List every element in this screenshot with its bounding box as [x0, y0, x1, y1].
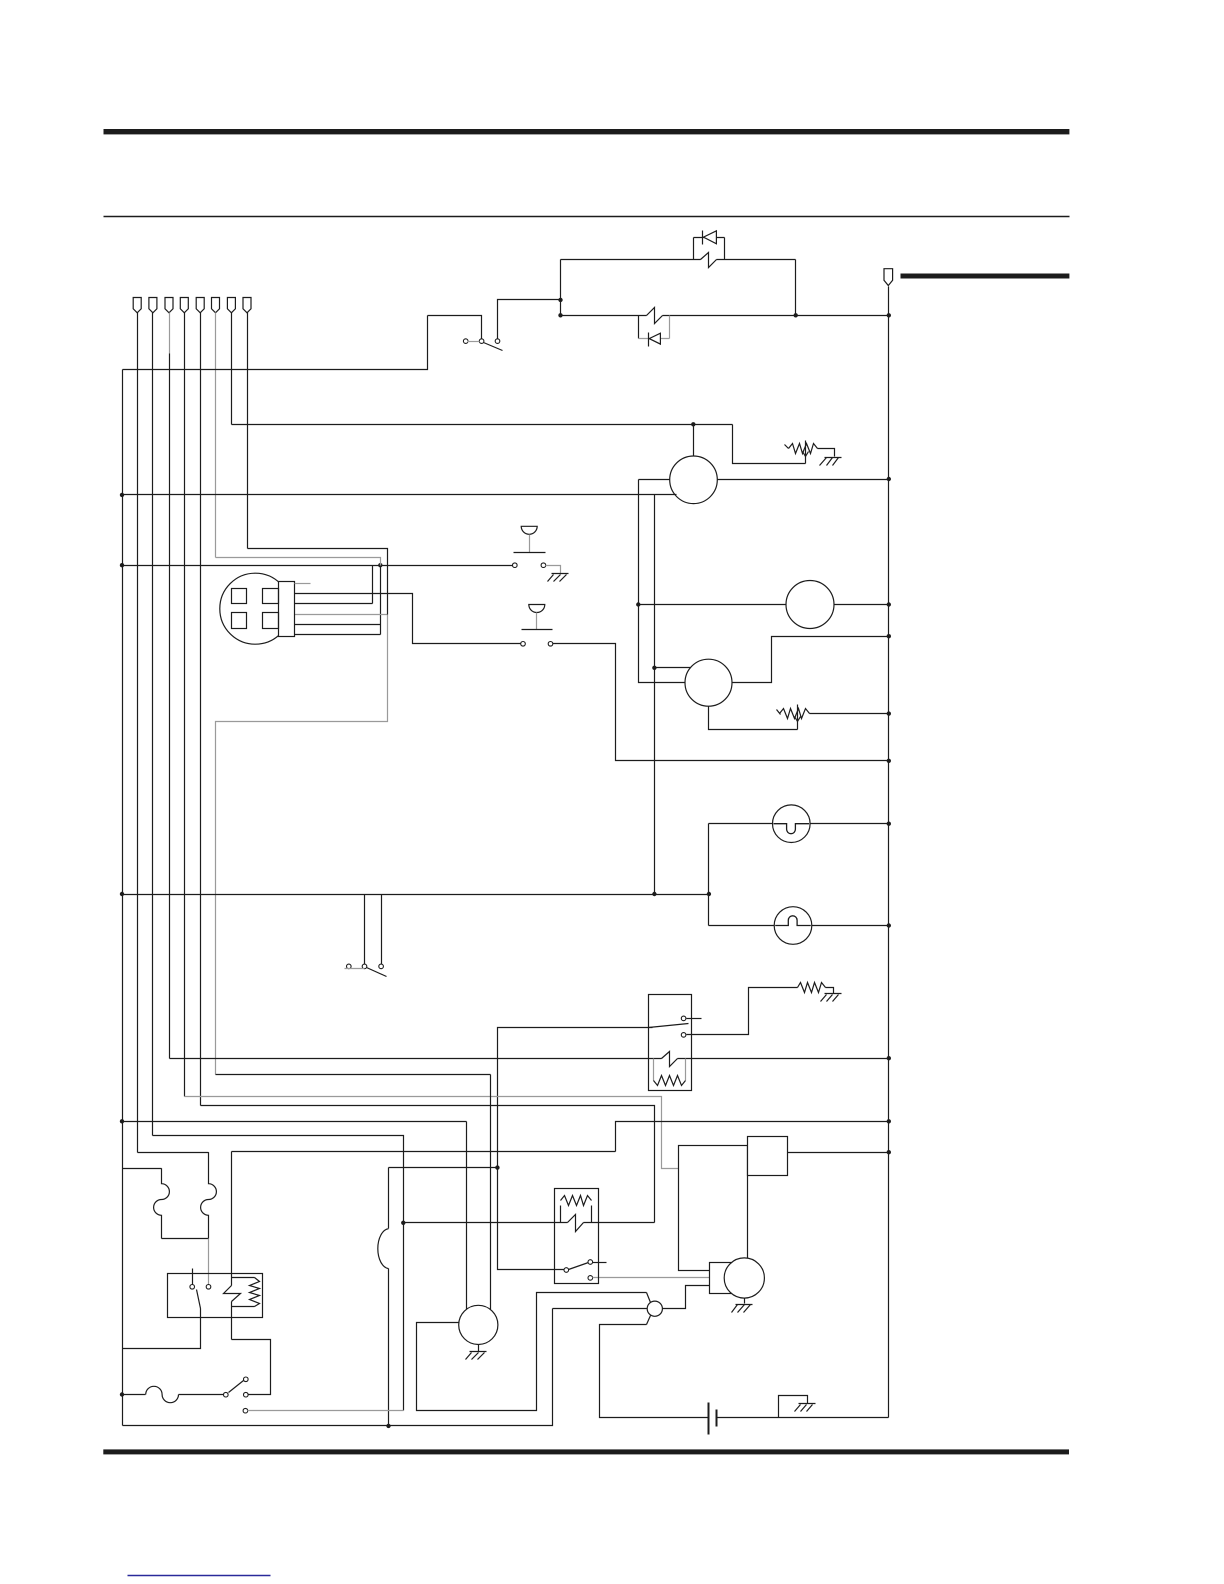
breaker FP3 bolt: [662, 1052, 678, 1067]
wire pin1 run: [138, 1152, 209, 1154]
wire SW2 to ground: [546, 566, 561, 574]
fuse F2: [201, 1152, 217, 1238]
footer blue underline: [128, 1575, 271, 1577]
motor FM1: [670, 456, 718, 504]
wire pin6 lower run: [216, 1074, 491, 1076]
switch SW1 contact b: [479, 339, 484, 344]
switch SW3 contact a: [521, 642, 526, 647]
switch SW1 contact a: [463, 339, 468, 344]
thermostat box TS1: [555, 1189, 599, 1284]
wire TH1 to ground: [818, 449, 835, 457]
fuse F3: [146, 1386, 179, 1402]
connector pin CN1-3: [165, 298, 173, 313]
switch SW2 contact b: [541, 563, 546, 568]
coil RY2 lead low: [231, 1302, 233, 1340]
resistor R1 zigzag: [798, 983, 826, 993]
wire R1 to ground: [826, 988, 834, 994]
coil RY2 sawtooth: [250, 1278, 260, 1307]
coil RY2 jog bottom: [232, 1306, 255, 1308]
wire pin7 run: [232, 424, 733, 426]
wire hub in: [553, 1308, 648, 1310]
fuse F1: [154, 1168, 170, 1238]
switch SW3 plunger: [529, 605, 545, 613]
ground G2: [552, 573, 569, 575]
wire coil feed: [232, 1151, 616, 1153]
wire lamp bus branch: [123, 1121, 467, 1123]
wire keypad riser2: [372, 566, 374, 604]
relay RY2 contact a: [190, 1285, 195, 1290]
coil RY2 lead: [231, 1152, 233, 1286]
connector pin CN1-1: [133, 298, 141, 313]
diode D2 triangle: [649, 333, 660, 344]
wire pin1 drop: [137, 313, 139, 1153]
wire pin6 jog: [216, 558, 381, 566]
ground G1: [825, 457, 842, 459]
thermistor TH2 zigzag: [780, 709, 810, 719]
transformer T1 box: [679, 1146, 748, 1271]
ground G6: [799, 1403, 816, 1405]
wire cap gnd riser: [779, 1396, 808, 1418]
junction dot: [495, 1165, 499, 1169]
lamp LP1: [773, 805, 811, 843]
junction dot: [794, 313, 798, 317]
wire keypad line5: [295, 634, 381, 636]
relay RY1 blade: [649, 1024, 689, 1028]
breaker FP4 bolt: [568, 1215, 584, 1232]
junction dot: [401, 1221, 405, 1225]
wire lamp1 branch: [708, 824, 710, 926]
junction dot: [652, 666, 656, 670]
wire keypad feed: [123, 565, 513, 567]
switch SW2 plunger: [521, 526, 537, 534]
connector pin CN1-2: [149, 298, 157, 313]
relay RY2 blade: [197, 1290, 201, 1309]
transformer T1 core box: [748, 1137, 788, 1176]
wire fuse F3 feed: [123, 1394, 146, 1396]
wire pin2 run: [153, 1136, 404, 1411]
page top rule: [104, 129, 1070, 134]
connector pin CN1-4: [180, 298, 188, 313]
wire keypad line4: [295, 624, 381, 626]
switch SW3 stem: [536, 613, 538, 630]
wire SW1 to node: [498, 300, 561, 339]
wire hub diag b: [647, 1316, 651, 1325]
switch SW1 link bar: [468, 341, 480, 343]
hub circle J1: [647, 1301, 662, 1316]
wire page bottom run: [123, 1309, 553, 1426]
wire SW3 out: [553, 644, 889, 761]
connector pin CN1-5: [196, 298, 204, 313]
keypad key4: [263, 613, 279, 629]
magnetron box: [710, 1263, 740, 1294]
wire RY2 blade out: [123, 1309, 201, 1349]
wire defrost branch low: [388, 1269, 390, 1426]
power lead bar: [901, 274, 1070, 279]
junction dot: [120, 563, 124, 567]
wire pin8 route upper: [248, 549, 388, 615]
wire pin5 drop: [200, 313, 202, 1106]
diode D1 stub right: [724, 238, 726, 260]
wire RY2 armature lead: [192, 1269, 194, 1285]
wire node riser: [380, 566, 382, 635]
connector pin CN1-6: [212, 298, 220, 313]
thermistor TH1 zigzag: [789, 444, 818, 454]
junction dot: [691, 422, 695, 426]
wire TS1 feed: [404, 1222, 568, 1224]
switch SW3 contact b: [548, 642, 553, 647]
motor M3: [786, 581, 834, 629]
wire lamp2 left: [709, 925, 775, 927]
wire lamp feed: [123, 894, 709, 896]
diode D1 triangle: [704, 231, 717, 244]
thermistor TH2 tail: [777, 710, 781, 715]
junction dot bus: [887, 634, 891, 638]
wire FM2 left loop: [417, 1293, 647, 1411]
relay RY2 contact b: [206, 1285, 211, 1290]
wire relay aux branch: [616, 1122, 889, 1152]
switch SW4 contact b: [362, 964, 367, 969]
magnetron MG1: [724, 1258, 764, 1298]
junction dot bus: [887, 477, 891, 481]
junction dot bus: [887, 923, 891, 927]
wire TS1 to magnetron gray: [593, 1277, 710, 1279]
wire TH2 to bus: [810, 713, 889, 715]
switch SW4 contact c: [379, 964, 384, 969]
relay RY1 stub: [687, 1018, 702, 1020]
diode D2 stub left: [638, 316, 640, 339]
wire keypad line1: [295, 594, 521, 644]
diode D1 bar: [702, 231, 704, 245]
junction dot: [558, 313, 562, 317]
wire riser x654: [654, 495, 656, 895]
main bus wire N1: [888, 287, 890, 1418]
thermostat blade: [569, 1263, 589, 1270]
wire pin8 route lower: [216, 615, 388, 1075]
switch SW2 stem: [529, 535, 531, 553]
wire pin5 run: [201, 1106, 655, 1223]
ground G5: [736, 1304, 753, 1306]
diode D1 branch: [694, 237, 725, 239]
lamp LP1 filament: [774, 824, 810, 834]
wire SW5-3 gray: [248, 1410, 404, 1412]
junction dot bus: [887, 1056, 891, 1060]
wire relay feed: [498, 1028, 653, 1168]
heater H2 stub l: [560, 1206, 562, 1223]
junction dot: [120, 892, 124, 896]
wire pin2 drop: [152, 313, 154, 1136]
wire loop left side: [560, 260, 562, 316]
keypad contact rect: [279, 582, 295, 637]
junction dot bus: [887, 759, 891, 763]
switch SW4 contact a: [347, 964, 352, 969]
switch SW2 contact a: [513, 563, 518, 568]
junction dot: [378, 563, 382, 567]
capacitor C1 plate R: [716, 1410, 718, 1427]
diode D2 bar: [648, 333, 650, 347]
wire RY2 to selector: [232, 1340, 271, 1395]
wire line L1 to bus: [663, 315, 889, 317]
junction dot bus: [887, 822, 891, 826]
heater H1 zigzag: [654, 1076, 686, 1086]
coil RY2 jog top: [232, 1277, 255, 1279]
keypad key2: [263, 589, 279, 604]
wire F3 to SW5: [179, 1394, 224, 1396]
wire FM2 right feed: [490, 1075, 492, 1310]
switch SW4 blade: [367, 968, 387, 977]
thermostat contact a: [564, 1268, 569, 1273]
wire FM1 top lead: [693, 425, 695, 457]
wire heater to bus: [678, 1058, 889, 1060]
wire pin3 drop: [169, 354, 171, 1059]
wire lamp1 left: [709, 823, 773, 825]
switch SW4 bar: [345, 968, 365, 970]
wire riser x638: [639, 480, 686, 683]
ground G4: [470, 1351, 487, 1353]
breaker FP2 bolt: [647, 308, 663, 324]
wire hub out: [663, 1286, 710, 1309]
switch SW5 contact 1: [244, 1377, 249, 1382]
wire pin4 drop: [184, 313, 186, 1097]
node A dot: [558, 298, 562, 302]
junction dot bus: [887, 1119, 891, 1123]
wire M2 upper-left lead: [655, 667, 691, 669]
wire SW4 stub a: [364, 895, 366, 965]
junction dot: [636, 602, 640, 606]
heater H2 zigzag: [561, 1196, 592, 1206]
wire SW4 stub b: [381, 895, 383, 965]
wire pin3 drop gray part: [169, 313, 171, 354]
wire hub diag a: [647, 1293, 651, 1303]
capacitor C1 plate L: [708, 1403, 710, 1435]
wire lamp1 right: [811, 823, 889, 825]
heater H2 stub r: [591, 1206, 593, 1223]
thermistor TH1 arrowhead: [803, 452, 809, 457]
switch SW5 contact 3: [243, 1408, 248, 1413]
lamp LP2 filament: [775, 916, 811, 926]
junction dot: [120, 1119, 124, 1123]
wire pin8 drop: [247, 313, 249, 549]
wire line L1 segment: [561, 315, 647, 317]
relay RY2 box: [168, 1274, 263, 1318]
relay RY1 contact a: [681, 1016, 686, 1021]
keypad circle: [220, 573, 291, 644]
switch SW2 bar: [514, 552, 546, 554]
breaker FP5 bolt: [224, 1286, 241, 1302]
wire heater run: [170, 1058, 662, 1060]
wire pin4 gray run: [185, 1097, 679, 1169]
switch SW5 contact 2: [244, 1392, 249, 1397]
wire pin6 drop gray: [215, 313, 217, 558]
wire FM1 right to bus: [718, 479, 889, 481]
wire TS1 sw feed: [498, 1168, 565, 1270]
junction dot: [120, 1392, 124, 1396]
thermistor TH2 arrowhead: [795, 717, 801, 722]
junction dot: [120, 493, 124, 497]
connector pin CN1-8: [243, 298, 251, 313]
keypad key3: [232, 613, 247, 629]
heater H1 stub l: [653, 1059, 655, 1081]
keypad key1: [232, 589, 247, 604]
lamp LP2: [774, 907, 812, 945]
wire keypad line3 gray: [295, 614, 388, 616]
wire FM2 gnd stem: [478, 1345, 480, 1352]
relay RY1 box: [649, 995, 692, 1091]
diode D2 stub right: [669, 316, 671, 339]
relay RY1 contact b: [681, 1033, 686, 1038]
wire to thermistor TH1: [733, 425, 806, 464]
keypad stub: [295, 583, 311, 585]
junction dot: [652, 892, 656, 896]
wire TS1 out: [584, 1222, 655, 1224]
wire loop right side: [795, 260, 797, 316]
wire thermo crossbar: [389, 1167, 498, 1169]
terminal E1: [884, 269, 893, 286]
wire lower-left lead: [123, 494, 677, 496]
wire M2 right out: [733, 637, 889, 683]
thermistor TH1 arrow: [805, 441, 807, 464]
thermistor TH2 arrow: [797, 705, 799, 730]
breaker FP1 bolt: [701, 253, 717, 268]
page bottom rule: [103, 1449, 1069, 1454]
wire cap right: [717, 1417, 889, 1419]
wire MG1 gnd stem: [744, 1299, 746, 1304]
wire RY1 to resistor: [687, 988, 798, 1035]
junction dot bus: [887, 1150, 891, 1154]
wire FM2 top feed: [466, 1122, 468, 1310]
junction dot: [386, 1424, 390, 1428]
connector pin CN1-7: [227, 298, 235, 313]
wire fuse join: [162, 1238, 209, 1240]
wire fuse feed: [123, 1168, 162, 1170]
switch SW1 contact c: [495, 339, 500, 344]
switch SW5 contact com: [224, 1392, 229, 1397]
switch SW5 blade: [229, 1381, 244, 1393]
thermostat stub: [593, 1262, 607, 1264]
heater H1 stub r: [685, 1059, 687, 1081]
wire loop top: [561, 259, 701, 261]
thermistor TH1 tail: [785, 445, 789, 449]
wire hop arc: [378, 1229, 389, 1269]
switch SW3 bar: [522, 629, 553, 631]
junction dot bus: [887, 313, 891, 317]
thermostat contact c: [588, 1276, 593, 1281]
wire FM1 left: [639, 479, 670, 481]
thermostat contact b: [588, 1260, 593, 1265]
wire lamp circle left: [639, 604, 787, 606]
wire keypad line2: [295, 603, 373, 605]
page second rule: [104, 216, 1070, 218]
wire M2 bottom: [709, 707, 798, 730]
wire defrost branch: [388, 1168, 390, 1229]
wire top feed: [123, 316, 428, 370]
wire T1 secondary: [788, 1152, 889, 1154]
wire pin7 drop: [231, 313, 233, 425]
motor FM2: [459, 1305, 498, 1344]
diode D1 stub left: [693, 238, 695, 260]
switch SW1 blade: [484, 343, 503, 351]
wire lamp circle right: [835, 604, 889, 606]
wire lamp2 right: [812, 925, 889, 927]
junction dot bus: [887, 711, 891, 715]
wire loop top right: [717, 259, 796, 261]
ground G3: [825, 993, 842, 995]
diode D2 branch: [639, 338, 670, 340]
wire hub branch cap: [600, 1325, 709, 1418]
wire F2 to relay: [208, 1239, 210, 1285]
junction dot: [707, 892, 711, 896]
left bus wire N2: [122, 370, 124, 1426]
motor M2: [685, 659, 732, 706]
junction dot bus: [887, 602, 891, 606]
wire SW1 common riser: [428, 316, 482, 339]
